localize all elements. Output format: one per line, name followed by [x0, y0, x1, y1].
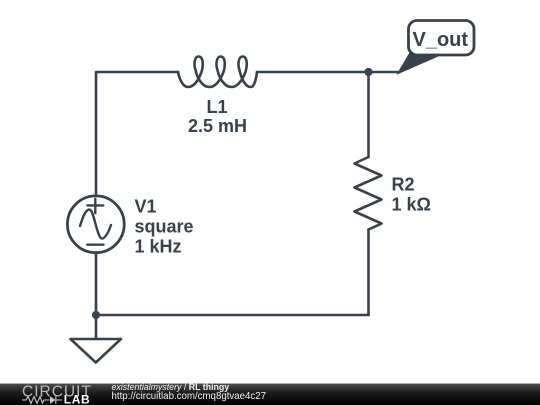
svg-text:R2: R2	[392, 175, 415, 195]
voltage source V1 circle	[67, 196, 124, 253]
svg-text:square: square	[135, 217, 194, 237]
flag V_out pointer	[398, 54, 438, 74]
wire resistor to bottom corner	[367, 230, 370, 316]
V1 minus sign	[87, 243, 103, 245]
ground	[71, 339, 122, 363]
svg-text:LAB: LAB	[64, 393, 90, 405]
wire bottom horizontal	[96, 314, 369, 317]
wire right vertical top (node to resistor)	[367, 72, 370, 157]
svg-text:http://circuitlab.com/cmq8gtva: http://circuitlab.com/cmq8gtvae4c27	[112, 391, 267, 402]
svg-text:L1: L1	[206, 97, 227, 117]
node junction dot top	[364, 68, 372, 76]
svg-text:1 kHz: 1 kHz	[135, 237, 182, 257]
resistor R2	[355, 157, 382, 230]
svg-text:V1: V1	[135, 197, 157, 217]
V1 sine wave	[80, 210, 111, 239]
logo schematic squiggle	[22, 396, 62, 403]
wire inductor to V_out pointer	[257, 71, 399, 74]
logo diode	[50, 396, 56, 403]
svg-text:V_out: V_out	[413, 29, 469, 51]
inductor L1	[178, 57, 257, 88]
svg-text:1 kΩ: 1 kΩ	[392, 195, 431, 215]
wire V1 bottom to ground node	[95, 253, 98, 340]
node junction dot bottom	[92, 311, 100, 319]
V1 plus sign	[87, 199, 103, 213]
wire top-left (left vertical + top horizontal)	[96, 72, 178, 196]
svg-text:2.5 mH: 2.5 mH	[188, 116, 247, 136]
flag V_out box	[409, 21, 475, 56]
